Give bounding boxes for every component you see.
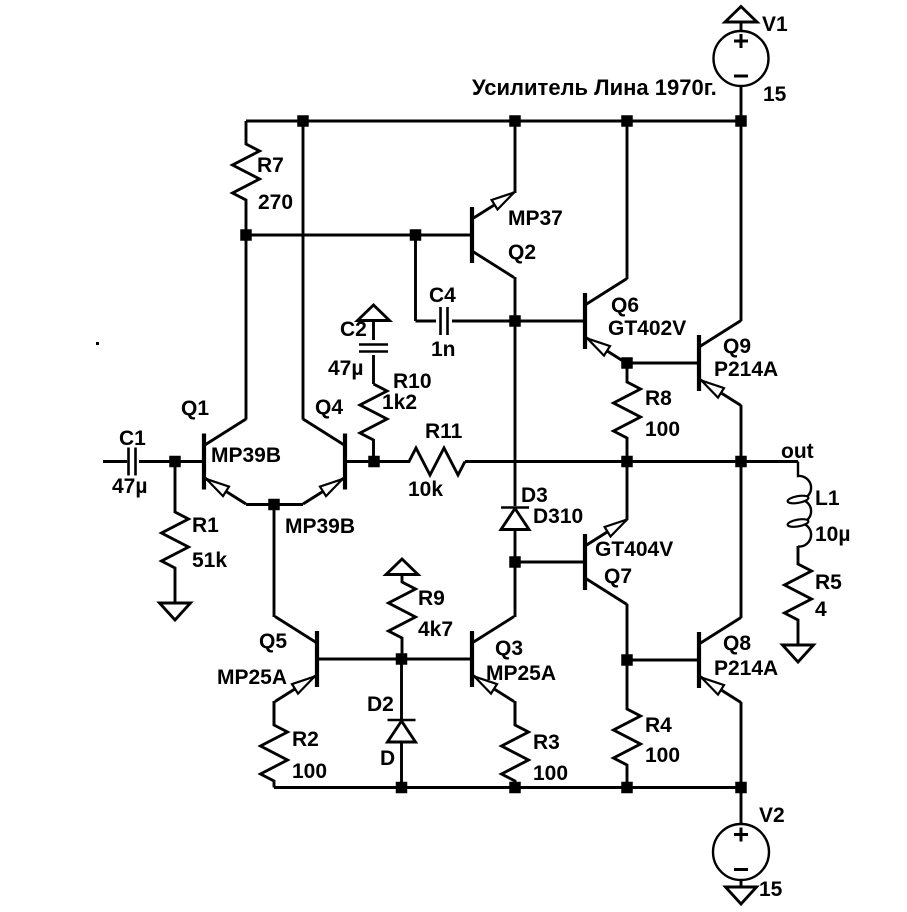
svg-text:10µ: 10µ [815,523,850,546]
wire Q8 emitter to bottom rail [740,702,743,788]
wire R7 bottom to Q2 base [246,234,470,237]
junction out node [735,456,747,468]
svg-text:R7: R7 [257,154,284,177]
svg-text:V1: V1 [762,13,788,36]
svg-text:Q1: Q1 [181,397,209,420]
junction node B (Q2 collector) [509,315,521,327]
wire R11 line to out node [465,460,741,463]
wire C2 arrow to plates [372,321,375,341]
junction bottom rail / V2 [735,782,747,794]
svg-text:MP39B: MP39B [211,444,281,467]
svg-text:R2: R2 [292,728,319,751]
svg-text:P214A: P214A [714,657,778,680]
wire Q4 base to node D [347,460,374,463]
junction R7 bottom [240,229,252,241]
transistor Q9 [697,335,701,391]
svg-text:1n: 1n [431,338,456,361]
svg-text:V2: V2 [759,804,785,827]
svg-text:D: D [380,747,395,770]
svg-text:P214A: P214A [714,358,778,381]
wire D3 to node C [514,529,517,562]
transistor Q5 [315,631,319,687]
wire bottom rail [274,786,741,789]
wire Q5 emitter to R2 [273,701,276,725]
transistor Q1 [202,434,206,490]
transistor Q2 [470,207,474,263]
svg-text:MP25A: MP25A [217,666,287,689]
svg-text:100: 100 [645,418,680,441]
D2 wire above [400,659,403,719]
svg-text:100: 100 [645,744,680,767]
svg-text:MP39B: MP39B [285,515,355,538]
junction node D (Q4 base) [368,456,380,468]
resistor R4 [614,660,641,788]
wire input [103,460,127,463]
transistor Q4 [343,434,347,490]
resistor R2 [261,701,288,788]
wire Q2 emitter to top rail [514,121,517,193]
svg-text:4k7: 4k7 [418,618,453,641]
wire C2 to R10 [372,355,375,384]
wire Q5 base to node E [319,658,402,661]
transistor Q6 [583,293,587,349]
resistor R9 [389,575,416,660]
svg-text:100: 100 [292,760,327,783]
transistor Q3 [470,631,474,687]
wire node C to Q3 collector [514,562,517,617]
svg-text:Q8: Q8 [723,632,751,655]
svg-text:R1: R1 [192,514,219,537]
svg-text:47µ: 47µ [112,475,147,498]
svg-text:C1: C1 [119,427,146,450]
stray dot [96,342,99,345]
wire Q1 collector [245,235,248,420]
wire node B to D3 [514,321,517,506]
voltage source V2 [713,824,769,880]
wire Q4 collector to top rail [302,121,305,420]
svg-text:1k2: 1k2 [382,391,417,414]
svg-text:MP37: MP37 [508,207,563,230]
svg-text:Q5: Q5 [259,630,287,653]
ground of R5 [783,645,814,662]
svg-text:C2: C2 [340,318,367,341]
wire C1 to node A [139,460,175,463]
junction top rail / Q4 collector [297,115,309,127]
junction C4 branch [410,229,422,241]
power arrow above V1 [725,7,757,23]
resistor R5 [785,546,812,645]
transistor Q7 [583,534,587,590]
svg-text:R11: R11 [425,420,463,443]
wire common emitters to Q5 collector [273,505,276,618]
svg-text:GT404V: GT404V [595,538,673,561]
wire C4 branch horizontal [416,320,437,323]
svg-text:L1: L1 [815,487,840,510]
svg-text:51k: 51k [192,549,227,572]
svg-text:15: 15 [759,878,783,901]
power arrow above R9 [386,559,418,575]
junction node G (Q7 collector) [621,654,633,666]
svg-text:15: 15 [763,83,787,106]
inductor L1 [798,462,811,547]
svg-text:Q9: Q9 [723,335,751,358]
wire Q6 emitter node F to Q9 base [627,362,697,365]
diode D3 [501,506,529,509]
wire V1 arrow stub [740,22,743,32]
junction bottom rail / R3 [509,782,521,794]
resistor R8 [614,363,641,462]
wire out node to Q8 collector [740,462,743,619]
svg-text:R5: R5 [815,571,842,594]
svg-text:C4: C4 [429,284,456,307]
junction top rail / Q2 emitter [509,115,521,127]
svg-text:Q6: Q6 [611,294,639,317]
power arrow above C2 [358,305,390,321]
wire Q3 emitter to R3 [514,701,517,725]
capacitor C4 [439,307,442,335]
wire V2 to ground stub [740,879,743,887]
junction top rail / V1 [735,115,747,127]
junction bottom rail / D2 [396,782,408,794]
resistor R11 [374,448,465,475]
wire Q9 emitter to out node [740,405,743,462]
svg-text:Q4: Q4 [315,396,343,419]
wire Q9 collector to top rail [740,121,743,321]
svg-text:R3: R3 [533,731,560,754]
junction top rail / Q6 collector [621,115,633,127]
wire emitters Q1 side [246,503,274,506]
svg-text:47µ: 47µ [328,357,363,380]
svg-text:R8: R8 [645,387,672,410]
junction node E (Q5/Q3 bases) [396,653,408,665]
svg-text:Q7: Q7 [604,565,632,588]
D2 wire below [400,742,403,788]
wire Q6 collector to top rail [626,121,629,279]
svg-text:Усилитель Лина 1970г.: Усилитель Лина 1970г. [472,75,717,100]
wire Q7 collector to node G [626,604,629,660]
wire emitters Q4 side [274,503,303,506]
svg-text:R4: R4 [645,714,672,737]
wire top +15V rail [246,120,741,123]
wire V1 to top rail [740,86,743,121]
L1 loop 2 [787,518,809,528]
svg-text:100: 100 [533,762,568,785]
svg-text:out: out [781,440,814,463]
ground of V2 [726,887,757,904]
junction node F (Q6 emitter) [621,357,633,369]
svg-text:R10: R10 [393,370,432,393]
wire bottom rail to V2 [740,788,743,826]
transistor Q8 [697,632,701,688]
svg-text:GT402V: GT402V [608,317,686,340]
svg-text:Q2: Q2 [508,241,536,264]
svg-text:D3: D3 [521,484,548,507]
resistor R3 [502,701,529,788]
capacitor C2 [359,343,388,346]
wire node G to Q8 base [627,659,697,662]
L1 loop 1 [787,494,809,504]
junction common emitters [268,499,280,511]
wire Q7 emitter to mid line [626,462,629,521]
junction node A (input) [169,456,181,468]
wire Q2 collector to node B [514,277,517,321]
wire node A to Q1 base [175,460,202,463]
junction node C (D3 bottom) [509,556,521,568]
junction R8 bottom [621,456,633,468]
svg-text:D310: D310 [533,505,583,528]
wire out node to L1 [741,460,798,463]
resistor R10 [360,384,387,462]
svg-text:270: 270 [258,191,293,214]
voltage source V1 [714,31,769,86]
svg-text:4: 4 [815,598,827,621]
wire C4 branch vertical [414,235,417,321]
wire C4 to node B [452,320,515,323]
ground of R1 [160,603,191,620]
svg-text:R9: R9 [418,587,445,610]
wire node B to Q6 base [515,320,583,323]
capacitor C1 [127,448,130,476]
svg-text:MP25A: MP25A [486,662,556,685]
svg-text:D2: D2 [367,693,394,716]
junction bottom rail / R4 [621,782,633,794]
svg-text:10k: 10k [408,478,443,501]
diode D2 [388,719,416,722]
wire node C to Q7 base [515,561,583,564]
svg-text:Q3: Q3 [495,637,523,660]
resistor R7 [233,121,260,235]
wire node E to Q3 base [402,658,471,661]
resistor R1 [162,462,189,604]
